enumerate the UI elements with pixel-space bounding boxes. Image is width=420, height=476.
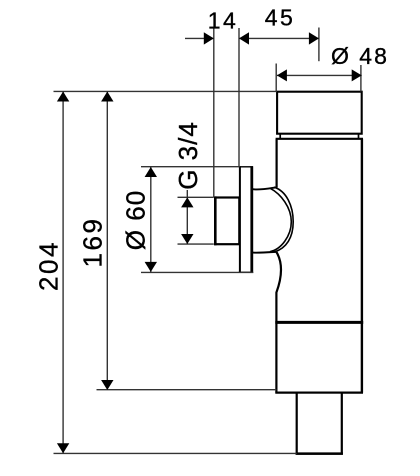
dia48 right extension — [360, 65, 362, 92]
top reference line — [54, 90, 278, 92]
svg-text:Ø 48: Ø 48 — [331, 43, 389, 69]
valve body top edge — [276, 138, 363, 140]
svg-text:G 3/4: G 3/4 — [173, 121, 203, 190]
svg-text:169: 169 — [78, 217, 108, 268]
bottom shoulder line — [253, 251, 277, 254]
wall flange — [239, 167, 252, 272]
dia60 bottom extension — [141, 271, 253, 273]
G3/4 bottom extension — [178, 243, 214, 245]
svg-text:Ø 60: Ø 60 — [121, 190, 151, 250]
svg-text:14: 14 — [208, 8, 238, 34]
threaded pipe G3/4 — [215, 198, 239, 245]
valve body right edge — [361, 139, 363, 393]
inlet bulge outer curve — [274, 187, 293, 252]
169 extension line — [97, 389, 277, 391]
45 dim line with arrows — [239, 37, 319, 39]
pipe end face thick — [214, 196, 217, 245]
G3/4 dim line with arrows — [186, 190, 188, 244]
body left bump below inlet — [276, 252, 281, 393]
thick divider line — [275, 321, 363, 324]
top cap — [277, 92, 362, 134]
body bottom edge — [275, 392, 363, 394]
valve body left edge upper — [276, 139, 278, 188]
dia60 dim line with arrows — [150, 167, 152, 273]
svg-text:204: 204 — [34, 240, 64, 291]
svg-text:45: 45 — [265, 5, 295, 31]
14 left extension vertical — [213, 28, 215, 197]
14 right extension vertical — [238, 28, 240, 167]
top shoulder line — [253, 187, 277, 189]
204 dim line with arrows — [62, 92, 64, 454]
dia60 top extension — [141, 166, 240, 168]
ring below cap — [279, 134, 281, 139]
14 dim tail + arrow — [185, 37, 214, 39]
204 extension line — [54, 452, 297, 454]
G3/4 top extension — [178, 196, 214, 198]
dia48 left extension — [275, 64, 277, 92]
centerline extension (45 right) — [318, 28, 320, 62]
outlet pipe bottom edge thick — [296, 452, 343, 455]
inlet bulge inner curve — [270, 188, 291, 251]
dia48 dim line with arrows — [277, 74, 362, 76]
169 dim line with arrows — [106, 92, 108, 391]
outlet pipe — [297, 393, 342, 454]
